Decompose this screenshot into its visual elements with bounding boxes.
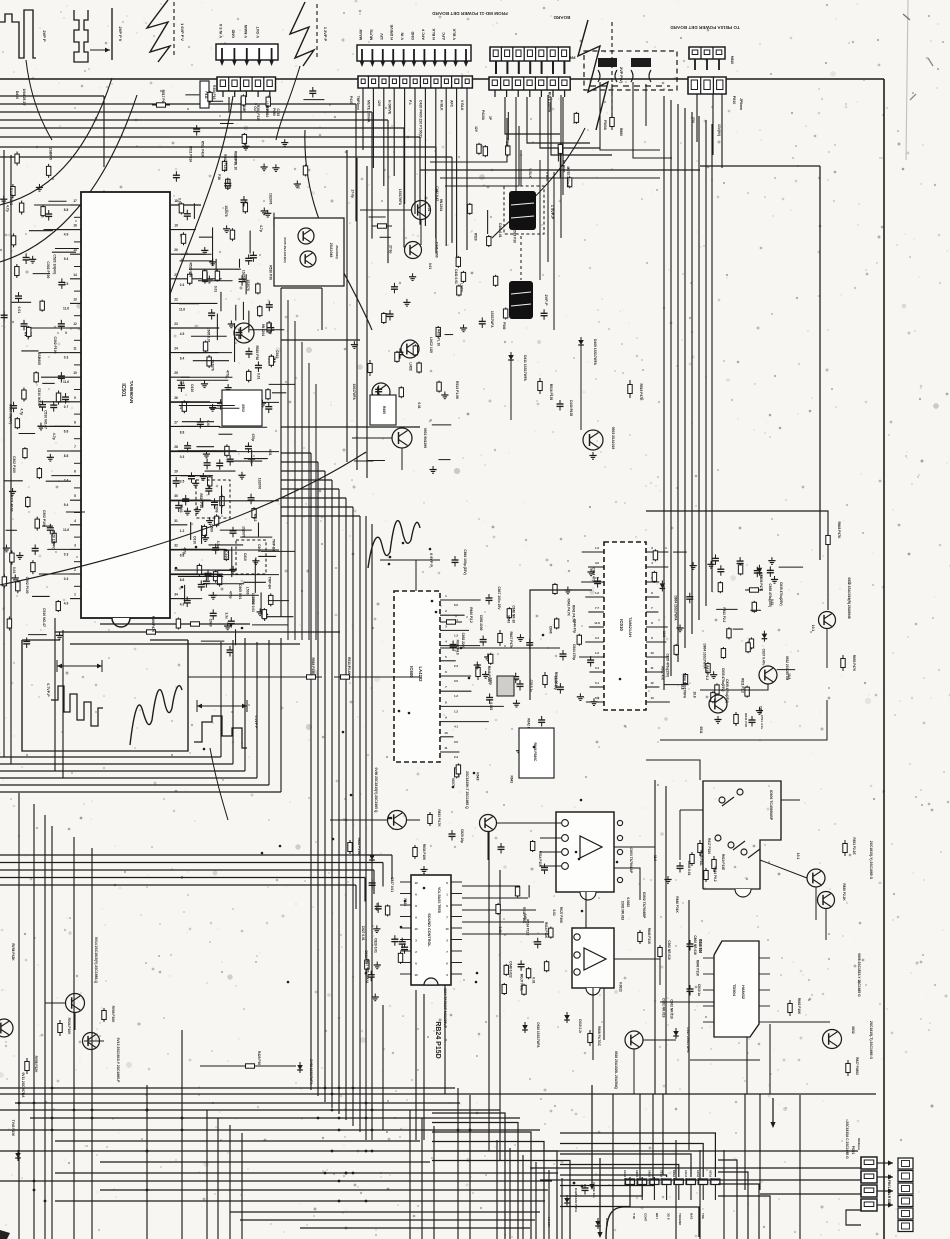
ground [186,508,188,512]
wire: bank elbow feed [560,1165,679,1178]
resistor [57,600,59,602]
resistor R568 [300,676,307,678]
wire: td504 link 2 [770,1021,830,1023]
capacitor [206,459,208,463]
waveform: video squiggle mid [368,521,420,568]
pin right [170,278,222,280]
resistor [376,395,378,397]
wire stub [268,600,289,602]
ground [444,391,446,395]
svg-text:C837 0.47u: C837 0.47u [761,649,765,666]
pin left tick [74,339,81,341]
junction [402,542,405,545]
svg-text:2.4: 2.4 [64,479,69,483]
wire stub vertical [202,499,204,507]
pin left [70,204,81,206]
pin left [70,425,81,427]
resistor [556,617,558,619]
wire: band-B elbow down [364,878,366,902]
junction [619,678,622,681]
U1 pin circle left [562,820,569,827]
wire: cell tick [564,90,566,97]
svg-text:D411 1SS17WFA: D411 1SS17WFA [523,355,527,381]
ground [19,552,21,556]
wire: left pin lead [44,425,70,427]
wire: left pin lead [31,327,70,329]
pin left tick [74,585,81,587]
svg-text:C610: C610 [275,350,279,358]
wire: vertical feed right column [670,100,672,676]
capacitor [214,498,216,502]
wire: cn4 drop [435,88,437,238]
wire: fan horizontal [281,452,311,454]
svg-text:R512: R512 [253,514,257,522]
junction [338,1200,341,1203]
svg-text:C610: C610 [243,553,247,561]
wire stub [207,100,223,102]
svg-text:L310 PL 10: L310 PL 10 [265,101,269,118]
wire stub [42,525,53,527]
pin with arrow [246,48,248,60]
svg-text:C302 P100: C302 P100 [12,456,16,473]
junction [350,794,353,797]
svg-text:TA8621AH: TA8621AH [628,617,633,637]
svg-text:R520 P36: R520 P36 [269,265,273,280]
pin right [170,327,219,329]
wire: nested elbow [718,1172,748,1239]
svg-text:M810: M810 [730,56,734,64]
wire: band-A horizontal [0,777,257,779]
wire: bank elbow feed [560,1144,703,1178]
pin with arrow [413,49,415,61]
resistor [41,300,43,302]
svg-text:TRI/GND: TRI/GND [678,1213,682,1226]
capacitor [268,403,270,407]
wire: cluster join vertical [184,585,186,603]
wire: pin stub into cluster [181,548,226,550]
resistor R833 [429,812,431,815]
dashed ref C2 [316,4,318,60]
svg-text:C810 1u: C810 1u [697,984,701,996]
junction [388,563,391,566]
svg-text:25: 25 [174,371,178,375]
svg-text:C420 P400 220 P100(2): C420 P400 220 P100(2) [419,100,423,138]
wire: bottom grid vertical [522,1155,524,1239]
junction [33,1102,36,1105]
waveform B reference line [111,8,113,60]
svg-text:CONT: CONT [644,1213,648,1222]
svg-text:0.3: 0.3 [64,552,69,556]
junction [331,1093,334,1096]
capacitor [186,210,188,214]
ground [579,693,581,697]
svg-text:0.0022: 0.0022 [619,982,623,992]
svg-text:10: 10 [414,881,418,885]
resistor [505,964,507,966]
wire stub vertical [235,629,237,645]
resistor [478,143,480,145]
wire: bottom grid vertical [421,1118,423,1239]
dashed ref D [611,22,613,126]
wire: cn6 long drop 2 [560,95,562,238]
resistor [48,164,50,167]
capacitor [689,593,691,597]
svg-text:31: 31 [174,519,178,523]
svg-text:2SC1815A C 2SC1685 G: 2SC1815A C 2SC1685 G [845,1121,849,1159]
resistor [203,524,205,526]
wire: cell tick [552,90,554,97]
pen mark 1 [903,14,910,20]
connector cell [898,1208,913,1219]
pin IC600 [440,614,465,616]
wire: bus drop [451,157,453,243]
ground [284,139,286,143]
svg-text:D408 1SS17WFA: D408 1SS17WFA [309,1059,313,1085]
ground [679,625,681,629]
wire: band-A horizontal [0,770,245,772]
resistor [507,144,509,146]
wires u2 out [614,958,660,960]
svg-text:C515 1u: C515 1u [529,680,533,693]
pin bar [518,61,520,74]
gate circle [737,789,743,795]
ground [230,321,232,325]
svg-text:C406E 10u: C406E 10u [592,1182,596,1198]
transistor Q013 [83,1033,100,1050]
svg-text:2.3: 2.3 [454,755,458,759]
svg-text:C605 0.01: C605 0.01 [238,584,242,599]
ground [519,634,521,638]
svg-text:0.01: 0.01 [179,506,183,513]
transistor Q512 [759,666,777,684]
waveform: pulse train in box [51,686,103,726]
wire: right frame border [883,79,885,1239]
resistor [221,495,223,497]
svg-text:8: 8 [445,700,447,704]
wire stub [258,555,276,557]
svg-text:R668 P4.7GC: R668 P4.7GC [597,1026,601,1047]
resistor [550,927,552,929]
gate contact 1 [722,797,734,806]
junction [389,556,392,559]
gate circle [715,835,721,841]
wire: cluster out 2 [281,426,420,428]
wire: opto2 drop [592,988,594,1060]
svg-text:0V05 2SA1019(R): 0V05 2SA1019(R) [283,237,287,262]
wire: pin stub into cluster [181,499,211,501]
svg-text:18: 18 [174,199,178,203]
pin sound IC right [451,939,462,941]
wire: q821 run [330,819,387,821]
wire stub [32,595,50,597]
diode [763,631,765,634]
resistor [226,444,228,446]
svg-text:1 5VP-P: 1 5VP-P [550,205,554,220]
wire: horizontal bus line [0,127,404,129]
pin IC600 [440,721,489,723]
svg-text:V IN: V IN [401,32,405,40]
U1 pin circle right [617,835,622,840]
resistor [53,531,55,534]
resistor [263,608,265,610]
wire: cluster join vertical [212,227,214,265]
resistor [517,885,519,887]
svg-text:13: 13 [650,696,654,700]
junction [452,786,455,789]
waveform: pulse A top-left [0,10,36,58]
ground [232,566,234,570]
wire: cluster join [193,360,229,362]
resistor R645 [691,852,693,855]
wire stub [445,334,454,336]
junction [435,611,438,614]
svg-text:4.2 10V: 4.2 10V [547,1217,551,1229]
wire stub [664,684,689,686]
capacitor [180,381,182,385]
svg-text:R616 P16: R616 P16 [698,939,702,953]
svg-text:R676 P560: R676 P560 [635,1170,639,1185]
junction [287,981,290,984]
svg-text:GND: GND [411,31,415,40]
capacitor [185,495,187,499]
wire: plug elbow bundle [600,128,660,150]
svg-text:R824: R824 [365,975,369,983]
wire stub [33,273,50,275]
svg-text:C520 1N(4V): C520 1N(4V) [52,254,56,274]
svg-text:4.7p: 4.7p [183,547,187,554]
ground [692,562,694,566]
resistor bank element [674,1179,683,1185]
small dashed box 2 [236,540,266,574]
svg-text:0808 2SC1815-Y 2SC1685 G: 0808 2SC1815-Y 2SC1685 G [857,953,861,997]
svg-text:R303 P135: R303 P135 [223,154,227,170]
svg-text:C511 4.7u: C511 4.7u [760,715,764,729]
svg-text:D428 1SS17WFA: D428 1SS17WFA [574,1188,578,1213]
U1 pin circle right [617,820,622,825]
junction [181,1117,184,1120]
svg-text:R834 P10K: R834 P10K [422,844,426,861]
svg-text:4: 4 [74,519,76,523]
transistor Q618 [625,1031,643,1049]
junction [146,1189,149,1192]
svg-text:10: 10 [414,973,418,977]
wire: cn5 elbow 2 [445,126,519,186]
svg-text:C442 0.47: C442 0.47 [435,186,439,201]
capacitor [500,843,502,847]
ground [212,592,214,596]
svg-text:TO PB01 POLR DEF: TO PB01 POLR DEF [887,1174,891,1205]
svg-text:R303 P135: R303 P135 [256,105,260,121]
junction [241,627,244,630]
connector cell [898,1196,913,1207]
svg-text:0.01: 0.01 [417,402,421,408]
junction [332,838,335,841]
ground [5,545,7,549]
ground [226,225,228,229]
wire: left margin vertical 4 [62,630,64,778]
pin TD504 left [703,1005,714,1007]
wire: fan vertical drop [331,480,333,1108]
wire: cn6 long drops [515,97,517,210]
resistor R849 [827,520,829,536]
svg-text:V BLK: V BLK [545,172,549,182]
diode D427 [597,1218,599,1221]
pin bar [541,61,543,74]
svg-text:2SA1048: 2SA1048 [329,243,333,258]
capacitor [482,636,484,640]
ground [259,608,261,612]
diode D619 [524,1022,526,1025]
wire stub [19,432,36,434]
wire: box top [22,639,60,641]
svg-text:P410: P410 [349,96,353,104]
svg-text:MUTE 200mA: MUTE 200mA [548,92,552,113]
junction [390,817,393,820]
junction [91,1117,94,1120]
wire: fan horizontal [281,497,346,499]
svg-text:R520 P36: R520 P36 [189,263,193,278]
capacitor C836 [679,862,681,866]
wire: horizontal bus line [0,119,388,121]
transistor Q402 [405,242,422,259]
diode [758,565,760,568]
svg-text:C902 NR.019: C902 NR.019 [621,901,625,921]
wire stub [272,392,286,394]
wire: long drop to photo [520,150,522,186]
wire: band-B horizontal [0,862,383,864]
wire: band-B elbow down [382,863,384,887]
svg-text:C446 1000: C446 1000 [434,242,438,258]
transistor Q511 [709,695,727,713]
pin with arrow [221,48,223,60]
ground [3,196,5,200]
wire: pin stub into cluster [181,475,201,477]
wire: cluster out 3 [281,339,360,341]
wire: fan horizontal [281,461,318,463]
wire: left pin lead [34,204,70,206]
capacitor [48,210,50,214]
pin IC600 [440,675,471,677]
wire: band-A vertical up [232,640,234,764]
junction [398,710,401,713]
scan blemish bottom-left [0,1230,10,1239]
capacitor [270,324,272,328]
svg-text:0.01: 0.01 [213,286,217,293]
ground [212,404,214,408]
resistor bank element [699,1179,708,1185]
capacitor [394,935,396,939]
svg-text:4: 4 [651,561,653,565]
amplifier sub-box [274,218,344,286]
pin sound IC right [451,973,462,975]
wire stub [4,480,22,482]
svg-text:R831 P2.2E: R831 P2.2E [852,837,856,854]
capacitor C303 [689,940,691,944]
svg-text:9N1204: 9N1204 [261,324,265,336]
svg-text:3: 3 [651,546,653,550]
svg-text:13V(9V): 13V(9V) [717,124,721,136]
wire: cluster join [210,407,240,409]
resistor [27,496,29,498]
svg-text:NR2mm: NR2mm [857,1138,861,1150]
wire: photo link dashed [520,236,522,280]
resistor [532,840,534,842]
svg-text:C610: C610 [224,551,228,559]
svg-text:2SC1815(-T) 2SC1685 G: 2SC1815(-T) 2SC1685 G [869,1021,873,1060]
IC604 bottom notch [424,978,438,985]
ground [519,747,521,751]
wire: cn4 drop [424,88,426,226]
wire: bottom grid vertical [612,1094,614,1239]
wire: bus drop [435,147,437,253]
wire: bottom grid vertical [662,1094,664,1175]
ground [713,671,715,675]
wire: pin row run [170,549,279,551]
ruler 0.7VP-P [57,665,102,667]
wire: q014 links [45,1002,66,1004]
wire: td504 link 3 [690,1059,760,1061]
wire: bottom elbow bundle [432,1151,557,1239]
wire: left pin lead [38,425,70,427]
wire: sound routing [462,897,528,899]
capacitor [49,524,51,528]
pin IC010 left [579,656,604,658]
wire stub [6,529,17,531]
svg-text:2SC1815(-Y) 2SC1685 G: 2SC1815(-Y) 2SC1685 G [869,841,873,880]
resistor [675,644,677,646]
pin left [70,548,81,550]
wire: band-A vertical up [256,642,258,778]
resistor [747,641,749,643]
svg-text:1.2: 1.2 [454,709,458,713]
svg-text:D409 1SS17WFA: D409 1SS17WFA [593,339,597,366]
svg-text:0.7: 0.7 [64,405,69,409]
junction [573,1182,576,1185]
wire: cell tick [506,90,508,97]
svg-text:R511 P3.4K: R511 P3.4K [347,657,351,675]
svg-text:L503: L503 [246,587,250,595]
wire stub vertical [238,259,240,268]
svg-text:R614 P11K: R614 P11K [544,922,548,939]
svg-text:R519 P47K: R519 P47K [639,383,643,401]
wire: bottom grid horizontal [55,1172,558,1174]
svg-text:8: 8 [651,621,653,625]
resistor [16,417,18,419]
svg-text:R0J7 P30K: R0J7 P30K [559,907,563,924]
wire: bottom grid vertical [744,1094,746,1190]
svg-text:R849 P47K: R849 P47K [837,521,841,539]
svg-text:0.0022: 0.0022 [626,897,630,907]
wire: bottom grid vertical [561,1178,563,1239]
op-amp/IC IC501 TA8690AN main body [81,192,170,618]
wire: bottom elbow bundle [432,1123,518,1239]
svg-text:0V14 2SC1815(Y) 2SC1685-Q: 0V14 2SC1815(Y) 2SC1685-Q [94,937,98,984]
pin sound IC right [451,881,462,883]
capacitor [590,656,592,660]
pin sound IC left [400,962,411,964]
capacitor [720,565,722,569]
diode D428 [566,1195,568,1198]
pen mark 3 [910,94,916,100]
transistor Q831 [807,869,825,887]
pin bar [506,61,508,74]
wire: bottom grid vertical [639,1094,641,1180]
capacitor C844 [562,650,564,654]
svg-text:C846: C846 [548,626,552,634]
wire: below IC run 2 [70,643,300,645]
svg-text:2VP P V: 2VP P V [118,27,123,42]
boxed part R648 [519,728,554,778]
